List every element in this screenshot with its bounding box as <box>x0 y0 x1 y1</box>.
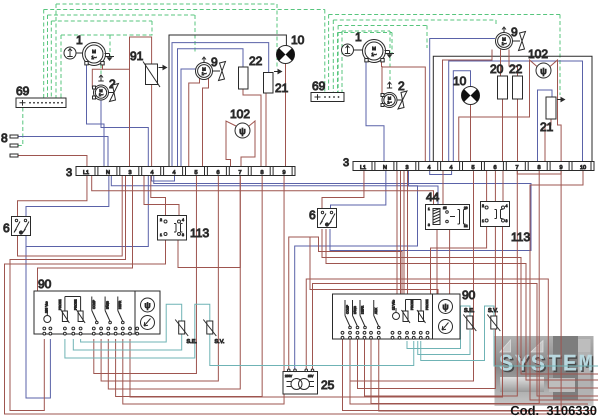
wire loop c7 to 90L t8 <box>108 176 240 390</box>
wire lamp 102L right <box>241 121 255 167</box>
svg-text:25: 25 <box>321 378 335 392</box>
svg-text:4: 4 <box>506 204 508 208</box>
svg-text:PROBE: PROBE <box>74 299 78 310</box>
wire loop c9R to 90R <box>379 170 561 412</box>
wire green bus R h8 to motor 2R <box>342 31 390 93</box>
fan motor 9L <box>213 62 226 81</box>
svg-text:3: 3 <box>405 165 408 171</box>
svg-text:PROBE: PROBE <box>58 299 62 310</box>
arrow up motor 9L <box>201 57 206 63</box>
ground motor 1R <box>385 51 395 59</box>
svg-text:3: 3 <box>343 157 349 169</box>
ground motor 1L <box>105 54 115 62</box>
relay 113 right <box>481 202 510 227</box>
wire loop c6 to 90L t7 <box>101 176 218 382</box>
relay 113 left <box>158 216 187 241</box>
svg-text:COMP: COMP <box>346 305 350 314</box>
svg-text:12V: 12V <box>308 374 313 378</box>
wire loop c7R to 90R <box>365 170 518 397</box>
svg-text:3: 3 <box>66 167 72 179</box>
svg-text:1: 1 <box>355 30 362 44</box>
indicator lamp 10 left <box>276 46 294 64</box>
wire 113L t4 to c4 <box>144 176 179 216</box>
wire lamp 102R left <box>459 60 537 162</box>
svg-text:22: 22 <box>249 54 263 68</box>
fan motor 2R <box>397 91 407 109</box>
svg-text:7: 7 <box>515 165 518 171</box>
resistor 21 right <box>546 97 565 119</box>
svg-text:20: 20 <box>490 62 504 76</box>
connector 69 right <box>311 93 344 102</box>
wire loop c5 to 90L t6 <box>94 176 197 374</box>
svg-text:M: M <box>99 89 102 93</box>
terminal strip 3 left <box>76 167 295 176</box>
wire terminal 8 pin3 to L1 <box>18 156 87 167</box>
wire 113L t1 long bottom <box>5 240 596 414</box>
wire terminal 8 pin1 to N <box>18 137 108 167</box>
svg-text:2: 2 <box>160 218 162 222</box>
svg-text:AUX: AUX <box>374 308 378 314</box>
wire teal staple sensor S.E. right <box>407 306 470 349</box>
svg-text:2: 2 <box>398 79 405 93</box>
wire loop c8 to 90L t9 <box>116 176 263 397</box>
wire motor 1L to N <box>87 64 105 167</box>
svg-text:ψ: ψ <box>144 300 150 310</box>
svg-text:6: 6 <box>3 221 10 235</box>
svg-text:2: 2 <box>482 204 484 208</box>
svg-text:S.V.: S.V. <box>215 339 225 345</box>
svg-text:S.V.: S.V. <box>488 308 498 314</box>
svg-text:8: 8 <box>537 165 540 171</box>
svg-text:6: 6 <box>493 165 496 171</box>
svg-text:N: N <box>383 165 387 171</box>
wire 10R bottom <box>470 105 472 162</box>
wire teal staple sensor S.V. left <box>65 304 210 358</box>
lamp 102 right <box>536 63 551 78</box>
wire c4R to 21R top <box>538 90 553 162</box>
wire 21R bottom to c8R <box>545 119 551 162</box>
svg-text:3: 3 <box>506 219 508 223</box>
wire 113R t1 to 90R <box>431 227 487 295</box>
wire c4 to motor 9L <box>181 69 196 167</box>
sensor S.E. right <box>463 308 476 331</box>
svg-text:91: 91 <box>130 49 144 63</box>
wire loop c6R to 90R <box>358 170 496 389</box>
svg-text:1: 1 <box>160 233 162 237</box>
svg-text:4: 4 <box>427 165 430 171</box>
svg-text:PROBE: PROBE <box>425 299 429 310</box>
svg-text:90: 90 <box>462 288 476 302</box>
WIRES-TEAL <box>65 304 598 366</box>
wire green dashed box motor 1L <box>61 35 110 98</box>
resistor 21L <box>264 70 282 94</box>
svg-text:22: 22 <box>509 62 523 76</box>
svg-text:69: 69 <box>16 84 30 98</box>
svg-text:ψ: ψ <box>442 302 448 312</box>
wire c3R bundle to 90R <box>397 170 408 295</box>
svg-text:102: 102 <box>528 47 548 61</box>
svg-text:5: 5 <box>471 165 474 171</box>
svg-text:1: 1 <box>482 219 484 223</box>
svg-text:Cod. 3106330: Cod. 3106330 <box>510 403 597 418</box>
sensor S.E. left <box>175 320 197 346</box>
wire 6L to c3 <box>18 176 123 257</box>
wire loop c9 to 90L t10 <box>123 176 284 405</box>
svg-text:21: 21 <box>275 81 289 95</box>
resistor 22L <box>239 67 249 89</box>
svg-text:1: 1 <box>76 33 83 47</box>
arrow up motor 9R <box>501 27 506 33</box>
wire teal staple sensor S.E. left <box>81 304 182 342</box>
transformer 25 <box>283 369 318 394</box>
svg-text:4: 4 <box>150 170 153 176</box>
wire N right to 6R <box>331 170 386 209</box>
wire green bus R h5 to 21R arrow <box>329 15 560 96</box>
wire resistor 91 to c3 <box>130 37 152 167</box>
wire 6R b1 long right <box>322 229 598 374</box>
svg-text:10: 10 <box>453 74 467 88</box>
wire black rect right <box>433 56 592 161</box>
wire c4 bus to 21L top <box>172 43 269 167</box>
fan motor 9R <box>513 32 526 51</box>
svg-text:3: 3 <box>428 223 430 227</box>
wire motor 9L to c5 b <box>203 78 209 167</box>
wire c10R long down <box>530 170 598 401</box>
svg-text:1: 1 <box>428 207 430 211</box>
wire L1 to 6L <box>18 176 87 217</box>
svg-text:102: 102 <box>230 107 250 121</box>
svg-text:230 Vac: 230 Vac <box>45 301 49 313</box>
motor M1 right <box>363 40 386 63</box>
sensor S.V. right <box>487 308 500 331</box>
svg-text:113: 113 <box>511 230 530 244</box>
wire c4 bus to 22L top <box>178 49 244 167</box>
wire motor 1R to motor 2R <box>381 62 384 94</box>
svg-text:6: 6 <box>309 208 316 222</box>
wire 6L to 90L t2 loop <box>26 236 50 399</box>
svg-text:ψ: ψ <box>239 126 245 136</box>
wire motor 2L loop to 6L <box>26 100 148 247</box>
svg-text:20: 20 <box>464 206 468 210</box>
motor M9 right <box>496 33 513 50</box>
wire 90R t1 bottom long <box>343 339 596 411</box>
thermal protector motor 1R <box>342 44 364 56</box>
resistor 22 right <box>513 76 523 99</box>
wire green bus L h3 to motor 9L <box>48 15 196 98</box>
controller 90 right <box>333 294 461 339</box>
wire motor 9L to c5 <box>189 78 200 167</box>
wire teal S.E. bottom to 90L <box>73 334 181 350</box>
svg-text:9: 9 <box>511 25 518 39</box>
svg-text:10: 10 <box>580 165 586 171</box>
wire green dashed box motor 1R <box>338 33 393 93</box>
svg-text:M: M <box>92 49 96 54</box>
svg-text:12 Vdc: 12 Vdc <box>392 300 396 310</box>
svg-text:ψ: ψ <box>540 66 546 76</box>
wire c3 to 90L top <box>38 176 133 292</box>
switch 6 right <box>318 209 337 228</box>
wire green stub motor 2L <box>100 64 102 74</box>
svg-text:21: 21 <box>540 120 554 134</box>
wire motor 9R bottoms <box>443 50 518 162</box>
svg-text:8: 8 <box>260 170 263 176</box>
resistor 20 <box>498 76 508 99</box>
resistor 91 <box>143 62 167 88</box>
wire 90R t2 bottom long <box>350 339 588 404</box>
svg-text:1~: 1~ <box>91 55 97 60</box>
wire lamp 102R right <box>550 60 561 162</box>
wire 25 t1 to 90R <box>289 237 402 371</box>
wire green bus L h2 to 69R <box>44 10 325 99</box>
sensor S.V. left <box>203 320 225 346</box>
wire motor 1R to c4R <box>382 67 426 162</box>
svg-text:N: N <box>106 170 110 176</box>
arrow up motor 2L <box>98 75 103 81</box>
svg-text:1~: 1~ <box>371 52 377 57</box>
svg-text:6: 6 <box>216 170 219 176</box>
connector 69 left <box>16 98 66 108</box>
svg-text:1~: 1~ <box>502 41 507 46</box>
wire 6R b2 long right <box>326 229 598 380</box>
svg-text:3: 3 <box>128 170 131 176</box>
svg-text:230V: 230V <box>285 374 292 378</box>
wire c4R to 10R top <box>453 71 470 162</box>
wire 90L t11 to 113R <box>130 227 503 398</box>
wire teal S.V.R bottom long <box>494 330 598 366</box>
motor M9 left <box>196 63 213 80</box>
wire teal S.V. bottom to 90R t10 <box>210 334 414 366</box>
terminal strip 3 right <box>353 162 594 171</box>
svg-text:44: 44 <box>426 190 440 204</box>
wire loop c8R to 90R <box>371 170 539 404</box>
wire hook 4-5 right strip <box>430 170 452 175</box>
svg-text:S.E.: S.E. <box>187 339 198 345</box>
thermal protector motor 1L <box>64 47 83 59</box>
wire green bus L h1 to 21L arrow <box>56 4 277 98</box>
wire branch to 90R <box>310 237 438 294</box>
wire hook 4-4 left strip <box>152 176 175 182</box>
LOGO SYSTEM 4 <box>495 336 596 406</box>
svg-text:9: 9 <box>282 170 285 176</box>
arrow up motor 2R <box>387 82 392 88</box>
wire 10L to c9 <box>285 64 287 167</box>
svg-text:S.E.: S.E. <box>464 308 475 314</box>
wire 113L t2 to c4 <box>151 176 166 216</box>
wire loop c5R to 90R <box>350 170 474 382</box>
wire resistor 91 to c4 <box>151 85 153 167</box>
wire relay 44 to c3R <box>409 170 439 205</box>
svg-text:10: 10 <box>291 33 305 47</box>
wire 22L to c8 <box>243 89 261 167</box>
svg-text:8: 8 <box>1 131 8 145</box>
wire 44 top to c4R <box>442 170 444 205</box>
wire 25 t3 long right <box>306 279 598 388</box>
svg-text:90: 90 <box>38 277 52 291</box>
svg-text:113: 113 <box>190 226 209 240</box>
svg-text:DEFR: DEFR <box>361 305 365 314</box>
svg-text:7: 7 <box>238 170 241 176</box>
wire 113R top to strip <box>487 170 503 202</box>
svg-text:M: M <box>372 46 376 51</box>
wire green 69L to pin 8 <box>18 108 23 146</box>
wire 44 bottom to 90R <box>437 230 450 295</box>
motor M2 right <box>381 93 397 108</box>
svg-text:15: 15 <box>443 206 447 210</box>
svg-text:DEFR: DEFR <box>118 300 122 309</box>
wire hook 7R-9R <box>517 170 561 175</box>
wire teal staple sensor S.V. right <box>421 306 494 361</box>
wire motor 1R to N right <box>366 62 384 162</box>
svg-text:4: 4 <box>182 218 184 222</box>
wire green bus L h4 <box>51 21 152 98</box>
svg-text:FANS: FANS <box>106 301 110 309</box>
wire junction to 91 riser <box>103 68 130 70</box>
wire c3 loop to 90L t1 <box>10 176 126 411</box>
wire black rect left to 6R <box>169 35 286 167</box>
svg-text:PROBE: PROBE <box>410 299 414 310</box>
svg-text:L1: L1 <box>360 165 366 171</box>
wire N long run to transformer 25 <box>111 176 417 372</box>
wire N to 6L <box>26 176 109 217</box>
svg-text:4: 4 <box>449 165 452 171</box>
wire c4 long run to 6R <box>154 176 531 251</box>
svg-text:69: 69 <box>312 79 326 93</box>
wire L1R to 6R <box>322 170 364 209</box>
svg-text:3: 3 <box>182 233 184 237</box>
wire 20 and 22R bottoms <box>503 99 518 162</box>
wire 25 t4 long right <box>313 284 599 397</box>
svg-text:FANS: FANS <box>353 306 357 314</box>
svg-text:4: 4 <box>172 170 175 176</box>
wire 113L t3 to c7 <box>178 176 240 268</box>
indicator lamp 10 right <box>461 87 479 105</box>
svg-text:COMP: COMP <box>92 300 96 309</box>
wire green bus R h7 <box>338 26 427 93</box>
svg-text:5: 5 <box>194 170 197 176</box>
fan motor 2L <box>109 84 119 102</box>
svg-text:12: 12 <box>464 224 468 228</box>
controller 90 left <box>34 291 160 335</box>
motor M2 left <box>93 85 109 100</box>
wire motor 1L to motor 2L <box>92 64 102 88</box>
motor M1 left <box>83 43 106 66</box>
WIRES-BLACK <box>169 35 592 167</box>
switch 6 left <box>12 217 31 236</box>
wire green bus R h6 to motor 9R <box>333 20 496 93</box>
svg-text:1~: 1~ <box>202 71 207 76</box>
terminal block 8 <box>10 135 18 157</box>
wire teal S.E.R bottom <box>418 330 470 355</box>
svg-text:9: 9 <box>559 165 562 171</box>
wire L1 long run to relay 44 <box>92 176 434 205</box>
svg-text:M: M <box>388 96 391 100</box>
WIRES-GREEN <box>18 4 560 146</box>
wire 21L to c8 <box>265 93 267 167</box>
svg-text:9: 9 <box>211 55 218 69</box>
lamp 102 left <box>235 123 250 138</box>
svg-text:L1: L1 <box>83 170 89 176</box>
wire right edge riser <box>449 61 583 162</box>
relay 44 <box>426 205 470 230</box>
wire c4R to motor 9R <box>430 39 495 162</box>
wire lamp 102L left <box>226 121 236 167</box>
